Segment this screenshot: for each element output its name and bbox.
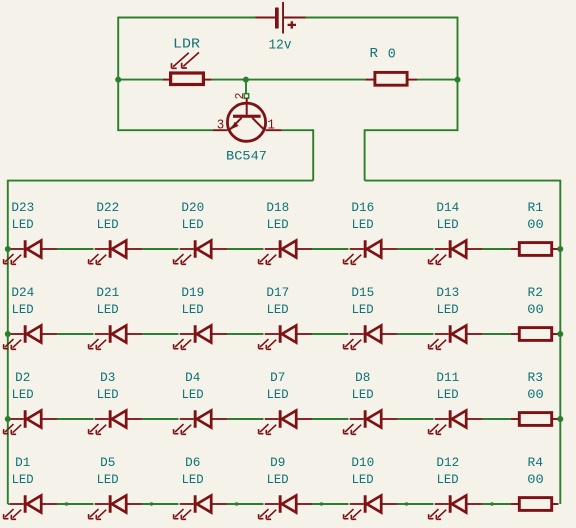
- svg-text:LED: LED: [267, 218, 289, 232]
- label LED value: [97, 388, 119, 402]
- label LED value: [182, 473, 204, 487]
- wire: [397, 333, 434, 335]
- label D22: [96, 201, 119, 215]
- wire: [142, 333, 179, 335]
- resistor R3: [511, 413, 559, 426]
- wire: [142, 248, 179, 250]
- label LED value: [267, 303, 289, 317]
- svg-text:3: 3: [217, 117, 225, 133]
- junction: [5, 331, 11, 337]
- svg-text:LED: LED: [12, 473, 34, 487]
- LED D18: [259, 240, 312, 264]
- svg-text:BC547: BC547: [226, 150, 267, 164]
- label D21: [96, 286, 119, 300]
- node wire end: [150, 502, 153, 505]
- svg-text:D20: D20: [181, 201, 204, 215]
- junction: [5, 416, 11, 422]
- resistor R 0: [366, 72, 417, 85]
- svg-text:LED: LED: [182, 218, 204, 232]
- svg-text:LED: LED: [182, 473, 204, 487]
- svg-text:00: 00: [527, 473, 544, 487]
- LED D23: [4, 240, 57, 264]
- svg-text:LED: LED: [12, 218, 34, 232]
- LED D9: [259, 495, 312, 519]
- label BC547: [226, 150, 267, 164]
- wire: [282, 129, 314, 131]
- svg-text:D4: D4: [185, 371, 200, 385]
- wire: [57, 418, 94, 420]
- LED D24: [4, 325, 57, 349]
- svg-text:1: 1: [267, 117, 275, 133]
- svg-text:LED: LED: [437, 218, 459, 232]
- svg-text:LED: LED: [352, 388, 374, 402]
- LED D15: [344, 325, 397, 349]
- label 0: [388, 47, 396, 63]
- wire: [142, 503, 179, 505]
- label D4: [185, 371, 200, 385]
- label D18: [266, 201, 289, 215]
- svg-text:0: 0: [388, 47, 396, 63]
- label D11: [436, 371, 459, 385]
- label D16: [351, 201, 374, 215]
- svg-text:D22: D22: [96, 201, 119, 215]
- wire: [227, 418, 264, 420]
- label LED value: [97, 303, 119, 317]
- wire: [364, 129, 366, 180]
- wire: [118, 17, 255, 19]
- LED D14: [429, 240, 482, 264]
- LED D16: [344, 240, 397, 264]
- wire: [312, 418, 349, 420]
- wire: [57, 503, 94, 505]
- junction: [557, 416, 563, 422]
- wire: [227, 248, 264, 250]
- pin label 2: [233, 93, 247, 100]
- wire: [8, 180, 313, 182]
- svg-text:LED: LED: [267, 388, 289, 402]
- junction: [243, 77, 249, 83]
- LDR photoresistor: [163, 52, 212, 84]
- wire: [117, 17, 119, 132]
- LED D22: [89, 240, 142, 264]
- svg-text:D21: D21: [96, 286, 119, 300]
- label LED value: [267, 388, 289, 402]
- label 12v: [269, 37, 292, 53]
- label LED value: [437, 218, 459, 232]
- wire: [57, 248, 94, 250]
- wire: [212, 79, 366, 81]
- resistor R1: [511, 243, 559, 256]
- wire: [312, 333, 349, 335]
- wire: [8, 503, 10, 505]
- wire: [227, 503, 264, 505]
- junction: [5, 246, 11, 252]
- label LED value: [437, 473, 459, 487]
- svg-text:LED: LED: [437, 473, 459, 487]
- wire: [397, 248, 434, 250]
- label D24: [11, 286, 34, 300]
- wire: [397, 418, 434, 420]
- node base wire end: [244, 94, 249, 99]
- junction: [557, 246, 563, 252]
- LED D20: [174, 240, 227, 264]
- label LED value: [97, 473, 119, 487]
- svg-text:D9: D9: [270, 456, 285, 470]
- label D15: [351, 286, 374, 300]
- wire: [142, 418, 179, 420]
- wire: [457, 17, 459, 132]
- wire: [8, 418, 10, 420]
- label LED value: [182, 388, 204, 402]
- svg-text:LED: LED: [12, 303, 34, 317]
- junction: [557, 331, 563, 337]
- LED D1: [4, 495, 57, 519]
- wire: [365, 180, 561, 182]
- label R1: [528, 201, 544, 215]
- wire: [559, 180, 561, 504]
- label R3 value 00: [527, 388, 544, 402]
- label LED value: [352, 473, 374, 487]
- wire: [312, 503, 349, 505]
- svg-text:LED: LED: [12, 388, 34, 402]
- label LED value: [182, 218, 204, 232]
- label D1: [15, 456, 30, 470]
- svg-text:D13: D13: [436, 286, 459, 300]
- node wire end: [320, 502, 323, 505]
- wire: [8, 333, 10, 335]
- resistor R2: [511, 328, 559, 341]
- svg-text:D16: D16: [351, 201, 374, 215]
- svg-text:LED: LED: [352, 303, 374, 317]
- junction: [455, 77, 461, 83]
- wire: [397, 503, 434, 505]
- label D7: [270, 371, 285, 385]
- label R3: [528, 371, 544, 385]
- LED D12: [429, 495, 482, 519]
- label R: [370, 46, 379, 62]
- LED D5: [89, 495, 142, 519]
- label LED value: [437, 303, 459, 317]
- svg-text:R3: R3: [528, 371, 544, 385]
- LED D17: [259, 325, 312, 349]
- svg-text:D19: D19: [181, 286, 204, 300]
- LED D21: [89, 325, 142, 349]
- pin label 3: [217, 117, 225, 133]
- label LED value: [267, 218, 289, 232]
- svg-text:LED: LED: [97, 388, 119, 402]
- wire: [365, 129, 458, 131]
- label LED value: [12, 218, 34, 232]
- svg-text:12v: 12v: [269, 37, 292, 53]
- svg-text:LDR: LDR: [173, 36, 201, 52]
- svg-text:D12: D12: [436, 456, 459, 470]
- node wire end: [235, 502, 238, 505]
- svg-text:D3: D3: [100, 371, 115, 385]
- svg-text:2: 2: [233, 93, 247, 100]
- transistor Q1 BC547: [213, 98, 282, 141]
- svg-text:LED: LED: [437, 303, 459, 317]
- resistor R4: [511, 498, 559, 511]
- label LED value: [12, 303, 34, 317]
- node wire end: [490, 502, 493, 505]
- label LED value: [97, 218, 119, 232]
- svg-text:R1: R1: [528, 201, 544, 215]
- svg-text:R: R: [370, 46, 379, 62]
- label LED value: [12, 473, 34, 487]
- svg-text:D23: D23: [11, 201, 34, 215]
- label D9: [270, 456, 285, 470]
- label D14: [436, 201, 459, 215]
- label D20: [181, 201, 204, 215]
- label LDR: [173, 36, 201, 52]
- svg-text:D14: D14: [436, 201, 459, 215]
- svg-text:D17: D17: [266, 286, 289, 300]
- wire: [227, 333, 264, 335]
- svg-text:00: 00: [527, 388, 544, 402]
- label R2 value 00: [527, 303, 544, 317]
- LED D19: [174, 325, 227, 349]
- LED D7: [259, 410, 312, 434]
- svg-text:D2: D2: [15, 371, 30, 385]
- svg-text:LED: LED: [267, 473, 289, 487]
- wire: [482, 503, 511, 505]
- svg-text:LED: LED: [182, 303, 204, 317]
- label D12: [436, 456, 459, 470]
- svg-text:D8: D8: [355, 371, 370, 385]
- junction: [115, 77, 121, 83]
- svg-text:LED: LED: [97, 218, 119, 232]
- svg-text:D6: D6: [185, 456, 200, 470]
- LED D10: [344, 495, 397, 519]
- label D2: [15, 371, 30, 385]
- label R4 value 00: [527, 473, 544, 487]
- LED D11: [429, 410, 482, 434]
- wire: [482, 418, 511, 420]
- label D19: [181, 286, 204, 300]
- label LED value: [437, 388, 459, 402]
- svg-text:LED: LED: [437, 388, 459, 402]
- node wire end: [65, 502, 68, 505]
- wire: [312, 248, 349, 250]
- svg-text:LED: LED: [267, 303, 289, 317]
- LED D2: [4, 410, 57, 434]
- label D6: [185, 456, 200, 470]
- label LED value: [12, 388, 34, 402]
- wire: [417, 79, 458, 81]
- wire: [245, 80, 247, 94]
- wire: [482, 333, 511, 335]
- LED D4: [174, 410, 227, 434]
- label LED value: [267, 473, 289, 487]
- label R1 value 00: [527, 218, 544, 232]
- label D23: [11, 201, 34, 215]
- label D10: [351, 456, 374, 470]
- svg-text:LED: LED: [352, 218, 374, 232]
- wire: [118, 79, 163, 81]
- label D13: [436, 286, 459, 300]
- svg-text:D1: D1: [15, 456, 30, 470]
- label D3: [100, 371, 115, 385]
- svg-text:D7: D7: [270, 371, 285, 385]
- wire: [118, 129, 213, 131]
- label R4: [528, 456, 544, 470]
- svg-text:D24: D24: [11, 286, 34, 300]
- wire: [57, 333, 94, 335]
- label LED value: [352, 388, 374, 402]
- svg-text:R4: R4: [528, 456, 544, 470]
- label LED value: [182, 303, 204, 317]
- svg-text:D5: D5: [100, 456, 115, 470]
- label D5: [100, 456, 115, 470]
- LED D6: [174, 495, 227, 519]
- wire: [7, 180, 9, 504]
- wire: [482, 248, 511, 250]
- pin label 1: [267, 117, 275, 133]
- LED D8: [344, 410, 397, 434]
- LED D3: [89, 410, 142, 434]
- svg-text:D11: D11: [436, 371, 459, 385]
- svg-text:LED: LED: [97, 473, 119, 487]
- svg-text:LED: LED: [352, 473, 374, 487]
- svg-text:R2: R2: [528, 286, 544, 300]
- wire: [306, 17, 458, 19]
- svg-text:D10: D10: [351, 456, 374, 470]
- label D17: [266, 286, 289, 300]
- svg-text:D15: D15: [351, 286, 374, 300]
- svg-text:00: 00: [527, 218, 544, 232]
- svg-text:LED: LED: [97, 303, 119, 317]
- wire: [8, 248, 10, 250]
- label R2: [528, 286, 544, 300]
- node wire end: [405, 502, 408, 505]
- label D8: [355, 371, 370, 385]
- svg-text:00: 00: [527, 303, 544, 317]
- LED D13: [429, 325, 482, 349]
- label LED value: [352, 218, 374, 232]
- svg-text:D18: D18: [266, 201, 289, 215]
- wire: [312, 129, 314, 180]
- svg-text:LED: LED: [182, 388, 204, 402]
- label LED value: [352, 303, 374, 317]
- battery BT1 12v: [256, 2, 306, 34]
